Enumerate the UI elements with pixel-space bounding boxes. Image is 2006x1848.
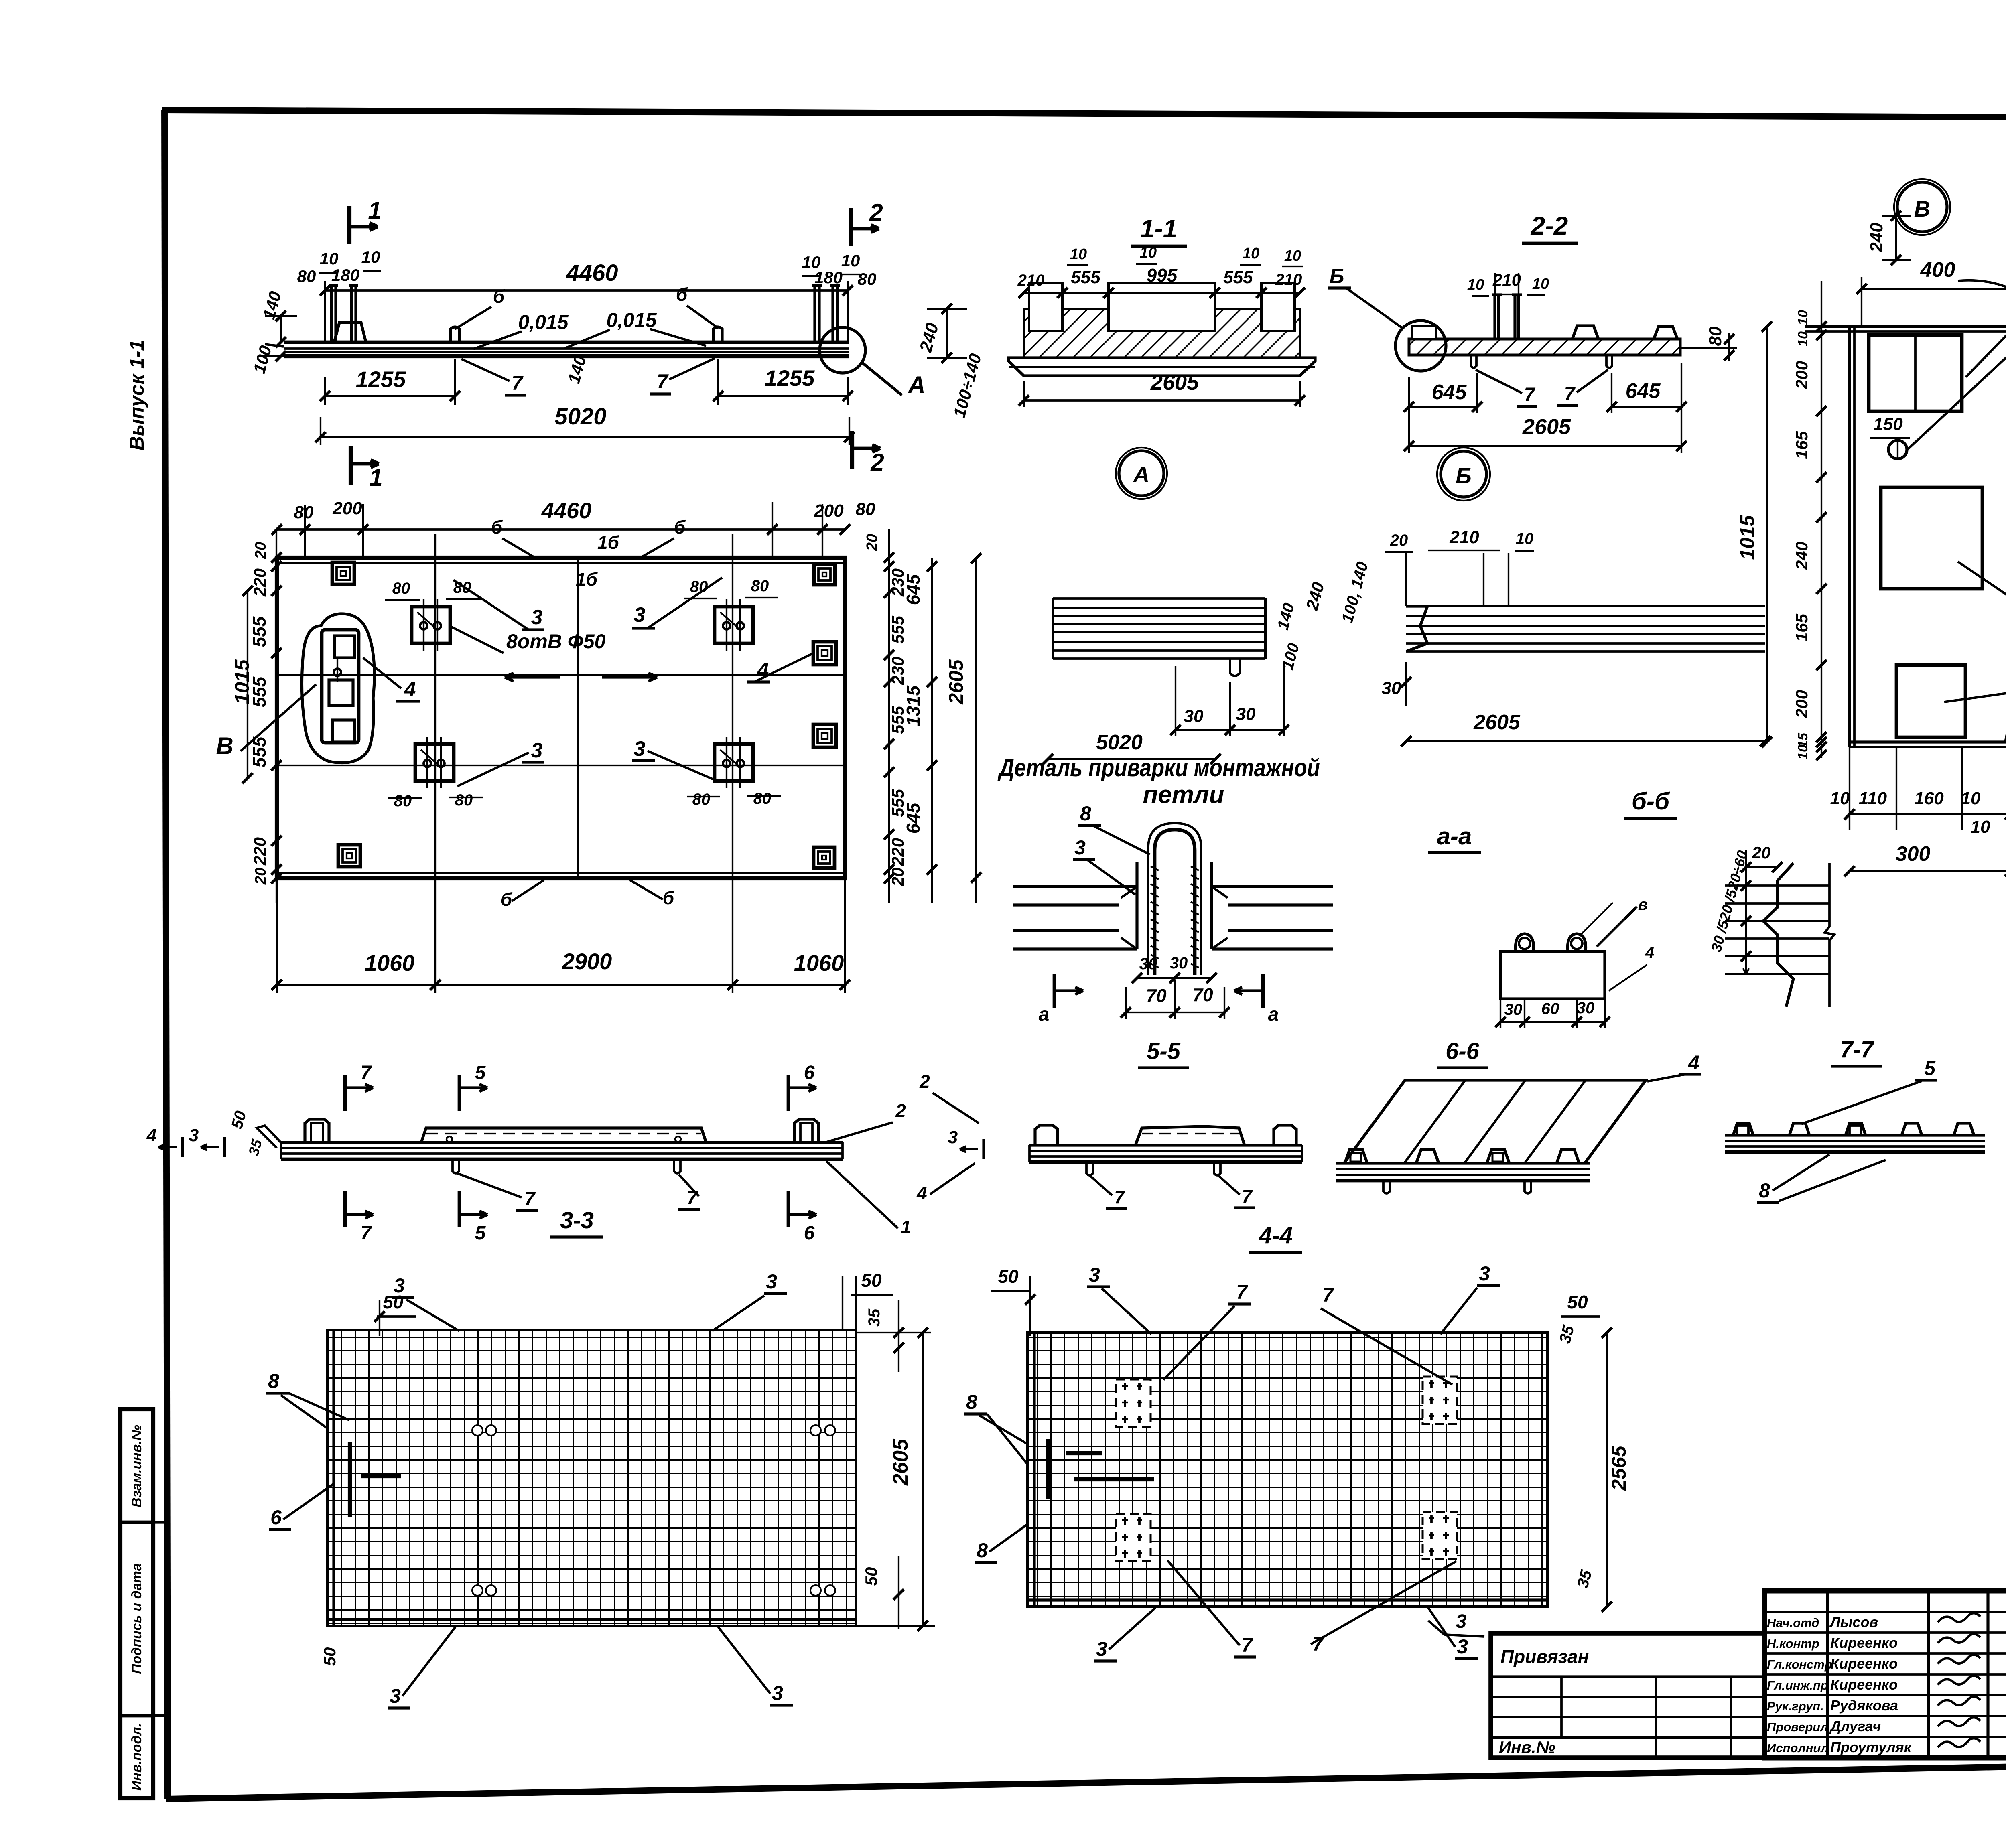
- svg-text:5: 5: [475, 1062, 486, 1083]
- svg-text:3: 3: [1089, 1264, 1100, 1286]
- svg-text:3: 3: [1096, 1638, 1107, 1660]
- svg-text:35: 35: [865, 1308, 883, 1327]
- svg-text:80: 80: [753, 790, 772, 807]
- svg-text:555: 555: [249, 616, 270, 647]
- svg-text:300: 300: [1896, 842, 1931, 866]
- svg-text:30: 30: [1577, 999, 1595, 1017]
- svg-text:3: 3: [1074, 836, 1086, 859]
- svg-text:б: б: [501, 889, 513, 910]
- svg-text:220: 220: [250, 837, 269, 866]
- svg-text:3: 3: [766, 1270, 777, 1293]
- svg-text:5020: 5020: [554, 404, 606, 430]
- svg-text:7: 7: [1236, 1281, 1248, 1303]
- svg-text:200: 200: [814, 501, 844, 521]
- svg-text:7: 7: [1242, 1186, 1253, 1207]
- svg-text:2: 2: [895, 1100, 906, 1121]
- svg-text:7: 7: [657, 370, 669, 393]
- svg-text:50: 50: [320, 1647, 339, 1666]
- svg-text:20: 20: [252, 542, 269, 559]
- svg-text:3: 3: [634, 737, 646, 761]
- svg-text:20: 20: [252, 868, 269, 885]
- svg-text:Деталь приварки монтажной: Деталь приварки монтажной: [997, 754, 1320, 782]
- svg-text:В: В: [1914, 196, 1930, 221]
- svg-text:3: 3: [531, 606, 543, 629]
- svg-text:645: 645: [1432, 381, 1467, 404]
- svg-text:Киреенко: Киреенко: [1830, 1676, 1898, 1693]
- svg-text:30: 30: [1382, 678, 1401, 698]
- svg-text:10: 10: [841, 251, 860, 270]
- svg-text:180: 180: [814, 268, 843, 287]
- svg-text:70: 70: [1192, 984, 1213, 1005]
- svg-text:555: 555: [1071, 268, 1100, 287]
- svg-text:80: 80: [392, 580, 410, 597]
- svg-text:200: 200: [332, 499, 362, 518]
- svg-text:0,015: 0,015: [518, 311, 569, 333]
- svg-text:7: 7: [512, 372, 524, 394]
- svg-text:3: 3: [772, 1682, 783, 1704]
- svg-text:10: 10: [320, 249, 339, 268]
- svg-text:4460: 4460: [566, 260, 618, 286]
- svg-text:7: 7: [1322, 1284, 1334, 1306]
- svg-text:1315: 1315: [903, 685, 924, 726]
- svg-text:555: 555: [249, 736, 270, 767]
- svg-text:555: 555: [888, 615, 907, 644]
- svg-text:Проутуляк: Проутуляк: [1830, 1739, 1912, 1755]
- svg-text:а-а: а-а: [1437, 823, 1472, 850]
- svg-text:б: б: [663, 887, 675, 908]
- svg-text:10: 10: [1830, 789, 1850, 808]
- svg-text:Б: Б: [1456, 463, 1472, 488]
- svg-text:3: 3: [390, 1685, 401, 1707]
- svg-text:80: 80: [453, 579, 471, 596]
- svg-text:1060: 1060: [794, 950, 844, 976]
- svg-text:1б: 1б: [597, 532, 620, 553]
- svg-text:10: 10: [1516, 530, 1534, 548]
- svg-text:240: 240: [1867, 223, 1886, 253]
- svg-text:7: 7: [524, 1189, 536, 1210]
- svg-text:80: 80: [751, 577, 769, 595]
- svg-text:3: 3: [394, 1274, 405, 1297]
- svg-text:10: 10: [1140, 244, 1157, 261]
- svg-text:1060: 1060: [365, 950, 415, 976]
- svg-text:240: 240: [1792, 542, 1811, 570]
- svg-text:0,015: 0,015: [606, 309, 657, 331]
- svg-text:4: 4: [1688, 1051, 1699, 1074]
- svg-text:210: 210: [1275, 271, 1302, 288]
- svg-text:1255: 1255: [356, 367, 406, 392]
- svg-text:10: 10: [1070, 246, 1087, 263]
- svg-text:80: 80: [394, 792, 412, 810]
- svg-text:4: 4: [404, 678, 416, 701]
- svg-text:210: 210: [1492, 270, 1521, 289]
- svg-text:8: 8: [1759, 1179, 1770, 1202]
- svg-text:20: 20: [888, 868, 907, 887]
- svg-text:2605: 2605: [1473, 711, 1521, 734]
- svg-text:2605: 2605: [1150, 371, 1199, 395]
- svg-text:220: 220: [888, 838, 907, 866]
- svg-text:б: б: [674, 517, 686, 538]
- svg-text:400: 400: [1920, 258, 1955, 282]
- svg-text:4: 4: [146, 1126, 156, 1145]
- svg-text:10: 10: [1243, 245, 1259, 262]
- svg-text:80: 80: [690, 578, 708, 596]
- svg-text:645: 645: [903, 574, 924, 605]
- svg-text:2900: 2900: [562, 949, 612, 974]
- svg-text:4: 4: [1645, 944, 1654, 962]
- svg-text:30: 30: [1236, 704, 1256, 724]
- svg-text:210: 210: [1017, 272, 1045, 289]
- svg-text:а: а: [1268, 1004, 1279, 1025]
- svg-text:5-5: 5-5: [1147, 1038, 1181, 1064]
- svg-text:б-б: б-б: [1632, 788, 1670, 815]
- svg-text:петли: петли: [1143, 781, 1224, 809]
- svg-text:7: 7: [1114, 1187, 1125, 1207]
- svg-text:60: 60: [1541, 1000, 1559, 1018]
- svg-text:6: 6: [804, 1223, 815, 1244]
- svg-text:2: 2: [919, 1071, 930, 1092]
- svg-text:7: 7: [1524, 384, 1536, 406]
- svg-text:Привязан: Привязан: [1500, 1646, 1589, 1667]
- svg-text:2605: 2605: [1522, 415, 1571, 439]
- svg-text:7: 7: [1241, 1634, 1253, 1656]
- svg-text:200: 200: [1792, 690, 1811, 718]
- svg-text:1015: 1015: [1736, 515, 1758, 560]
- svg-text:7: 7: [361, 1062, 372, 1083]
- svg-text:6: 6: [270, 1506, 282, 1529]
- svg-text:10: 10: [361, 247, 380, 266]
- svg-text:20: 20: [1752, 843, 1771, 862]
- svg-text:7: 7: [1312, 1633, 1324, 1655]
- svg-text:Киреенко: Киреенко: [1830, 1655, 1898, 1672]
- svg-text:180: 180: [331, 266, 359, 284]
- svg-text:1-1: 1-1: [1140, 214, 1178, 243]
- svg-text:Длугач: Длугач: [1829, 1718, 1881, 1734]
- svg-text:2565: 2565: [1608, 1445, 1630, 1491]
- svg-text:в: в: [1638, 896, 1648, 913]
- svg-text:8отВ Ф50: 8отВ Ф50: [506, 630, 606, 653]
- svg-text:150: 150: [1873, 414, 1903, 434]
- svg-text:8: 8: [977, 1539, 988, 1562]
- svg-text:30: 30: [1504, 1001, 1523, 1018]
- svg-text:10: 10: [1795, 744, 1811, 760]
- svg-text:200: 200: [1792, 361, 1811, 389]
- svg-text:50: 50: [998, 1266, 1019, 1287]
- svg-text:1255: 1255: [765, 365, 815, 391]
- svg-text:165: 165: [1792, 431, 1811, 459]
- svg-text:2-2: 2-2: [1531, 211, 1568, 240]
- svg-text:7: 7: [361, 1223, 372, 1244]
- svg-text:3: 3: [189, 1126, 199, 1145]
- svg-text:555: 555: [1223, 268, 1253, 287]
- svg-text:1б: 1б: [576, 569, 598, 590]
- svg-text:20: 20: [1390, 531, 1408, 549]
- svg-text:70: 70: [1146, 985, 1167, 1006]
- svg-text:а: а: [1039, 1004, 1050, 1025]
- svg-text:210: 210: [1449, 527, 1479, 547]
- svg-text:645: 645: [1626, 379, 1661, 403]
- svg-text:10: 10: [1532, 276, 1549, 292]
- svg-text:Проверил: Проверил: [1767, 1720, 1828, 1734]
- svg-text:2605: 2605: [945, 659, 967, 704]
- svg-text:Б: Б: [1330, 265, 1344, 288]
- svg-text:10: 10: [1961, 789, 1981, 808]
- svg-text:7: 7: [1564, 383, 1576, 405]
- svg-text:1: 1: [368, 197, 381, 224]
- svg-text:Инв.подл.: Инв.подл.: [129, 1723, 144, 1791]
- svg-text:165: 165: [1792, 613, 1811, 642]
- svg-text:50: 50: [862, 1567, 881, 1586]
- svg-text:8: 8: [1080, 802, 1091, 825]
- svg-text:645: 645: [903, 802, 924, 834]
- svg-text:3: 3: [1479, 1262, 1490, 1285]
- svg-text:Выпуск 1-1: Выпуск 1-1: [126, 340, 148, 450]
- svg-text:80: 80: [858, 270, 877, 288]
- svg-text:Лысов: Лысов: [1829, 1614, 1878, 1630]
- svg-text:А: А: [907, 371, 925, 398]
- svg-text:7-7: 7-7: [1840, 1037, 1875, 1063]
- svg-text:80: 80: [692, 791, 711, 808]
- svg-text:30: 30: [1139, 955, 1157, 973]
- svg-text:Гл.констр: Гл.констр: [1767, 1657, 1832, 1672]
- svg-text:3: 3: [531, 739, 543, 762]
- svg-text:80: 80: [455, 791, 473, 809]
- svg-text:220: 220: [250, 568, 269, 597]
- svg-text:10: 10: [1971, 817, 1990, 837]
- svg-text:4: 4: [916, 1183, 927, 1203]
- svg-text:50: 50: [1567, 1292, 1588, 1312]
- svg-text:5: 5: [475, 1223, 486, 1244]
- svg-text:б: б: [676, 284, 688, 305]
- svg-text:6: 6: [804, 1062, 815, 1083]
- svg-text:Нач.отд: Нач.отд: [1767, 1616, 1819, 1630]
- svg-text:80: 80: [294, 503, 314, 522]
- svg-text:А: А: [1133, 462, 1149, 487]
- svg-text:8: 8: [268, 1370, 279, 1392]
- svg-text:1: 1: [901, 1217, 911, 1237]
- svg-text:50: 50: [861, 1270, 882, 1291]
- svg-text:5: 5: [1924, 1057, 1936, 1079]
- svg-text:10: 10: [1795, 331, 1811, 347]
- svg-text:3: 3: [948, 1128, 958, 1147]
- svg-text:б: б: [491, 517, 503, 538]
- svg-text:80: 80: [856, 499, 875, 519]
- svg-text:Киреенко: Киреенко: [1830, 1635, 1898, 1651]
- svg-text:Рудякова: Рудякова: [1830, 1697, 1898, 1714]
- svg-text:995: 995: [1147, 265, 1178, 286]
- svg-text:230: 230: [888, 657, 907, 685]
- svg-text:10: 10: [1284, 247, 1301, 264]
- svg-text:Инв.№: Инв.№: [1499, 1738, 1555, 1757]
- svg-text:160: 160: [1914, 789, 1944, 808]
- svg-text:30: 30: [1184, 706, 1204, 726]
- svg-text:20: 20: [864, 534, 881, 551]
- svg-text:Гл.инж.пр: Гл.инж.пр: [1767, 1678, 1828, 1692]
- svg-text:3: 3: [634, 603, 646, 627]
- svg-text:б: б: [493, 286, 505, 307]
- svg-text:Н.контр: Н.контр: [1767, 1637, 1819, 1651]
- svg-text:5020: 5020: [1096, 731, 1143, 754]
- svg-text:Подпись и дата: Подпись и дата: [129, 1563, 144, 1674]
- svg-text:3: 3: [1456, 1611, 1467, 1632]
- svg-text:30: 30: [1170, 954, 1188, 972]
- svg-text:4-4: 4-4: [1259, 1223, 1293, 1249]
- svg-text:110: 110: [1859, 789, 1887, 808]
- svg-text:3: 3: [1457, 1635, 1468, 1658]
- svg-text:3-3: 3-3: [560, 1207, 594, 1233]
- svg-text:10: 10: [1795, 310, 1811, 325]
- svg-text:4460: 4460: [541, 498, 592, 523]
- svg-text:2605: 2605: [889, 1438, 912, 1486]
- svg-text:Взам.инв.№: Взам.инв.№: [129, 1425, 144, 1507]
- svg-text:В: В: [216, 732, 233, 759]
- svg-text:2: 2: [870, 449, 884, 476]
- svg-text:Рук.груп.: Рук.груп.: [1767, 1699, 1824, 1713]
- svg-text:10: 10: [1467, 276, 1484, 293]
- svg-text:6-6: 6-6: [1446, 1038, 1480, 1064]
- svg-text:1: 1: [369, 464, 382, 491]
- svg-text:Исполнил: Исполнил: [1767, 1741, 1829, 1755]
- svg-text:80: 80: [297, 267, 316, 286]
- svg-text:8: 8: [966, 1391, 977, 1413]
- svg-text:1015: 1015: [231, 659, 253, 704]
- svg-text:2: 2: [869, 199, 883, 226]
- svg-text:80: 80: [1706, 326, 1725, 346]
